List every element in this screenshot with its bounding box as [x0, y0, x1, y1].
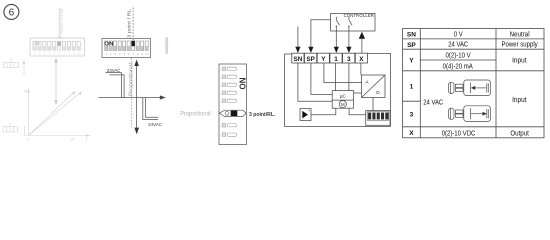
svg-text:10: 10 [70, 138, 74, 142]
svg-text:ON: ON [104, 42, 113, 48]
svg-text:D: D [376, 90, 380, 96]
svg-text:µC: µC [340, 94, 347, 99]
svg-text:1: 1 [410, 84, 414, 91]
svg-text:3: 3 [347, 56, 351, 63]
svg-text:6: 6 [58, 52, 60, 56]
svg-text:2: 2 [39, 52, 41, 56]
svg-text:A: A [365, 80, 369, 86]
svg-text:5: 5 [53, 52, 55, 56]
svg-text:9: 9 [141, 52, 143, 56]
svg-text:8: 8 [137, 52, 139, 56]
svg-text:3 point/RL.: 3 point/RL. [249, 112, 276, 118]
svg-text:ON: ON [238, 77, 247, 89]
svg-text:%: % [24, 90, 27, 94]
svg-text:Proportional: Proportional [59, 9, 65, 38]
svg-text:4: 4 [48, 52, 50, 56]
svg-text:10: 10 [145, 52, 149, 56]
svg-text:1: 1 [105, 52, 107, 56]
svg-text:Proportional: Proportional [180, 112, 210, 118]
svg-text:4: 4 [119, 52, 121, 56]
svg-text:SP: SP [407, 42, 416, 49]
svg-text:Input: Input [512, 57, 526, 64]
svg-text:Power supply: Power supply [502, 41, 539, 49]
svg-text:1: 1 [34, 52, 36, 56]
svg-text:7: 7 [132, 52, 134, 56]
svg-text:10: 10 [77, 52, 81, 56]
svg-text:1: 1 [334, 56, 338, 63]
svg-text:6: 6 [9, 8, 15, 19]
svg-text:6: 6 [128, 52, 130, 56]
svg-text:0(2)-10 VDC: 0(2)-10 VDC [442, 130, 476, 138]
svg-text:3: 3 [410, 112, 414, 119]
svg-text:X: X [409, 130, 414, 137]
svg-text:7: 7 [63, 52, 65, 56]
svg-text:Proportional: Proportional [129, 63, 135, 96]
svg-text:Output: Output [510, 130, 529, 138]
svg-text:8: 8 [68, 52, 70, 56]
svg-text:24 VAC: 24 VAC [423, 99, 443, 107]
svg-text:SN: SN [407, 32, 416, 39]
svg-text:3 point / RL: 3 point / RL [126, 9, 132, 38]
svg-text:SP: SP [306, 56, 314, 63]
svg-text:V: V [85, 138, 88, 142]
svg-text:9: 9 [73, 52, 75, 56]
svg-text:0(2)-10 V: 0(2)-10 V [446, 52, 472, 60]
svg-text:Input: Input [512, 97, 526, 104]
svg-text:0(4)-20 mA: 0(4)-20 mA [443, 63, 474, 71]
svg-text:SN: SN [294, 56, 303, 63]
svg-text:Neutral: Neutral [510, 31, 530, 39]
svg-text:3: 3 [114, 52, 116, 56]
svg-text:5: 5 [123, 52, 125, 56]
svg-text:24 VAC: 24 VAC [448, 41, 468, 49]
svg-text:0 V: 0 V [454, 31, 463, 39]
svg-text:24VAC: 24VAC [148, 122, 162, 127]
svg-text:0: 0 [27, 138, 29, 142]
svg-text:CONTROLLER: CONTROLLER [344, 13, 374, 18]
svg-text:ON: ON [32, 41, 40, 47]
svg-text:3: 3 [44, 52, 46, 56]
svg-text:2: 2 [110, 52, 112, 56]
svg-text:M: M [341, 102, 345, 107]
svg-text:Y: Y [409, 58, 414, 65]
